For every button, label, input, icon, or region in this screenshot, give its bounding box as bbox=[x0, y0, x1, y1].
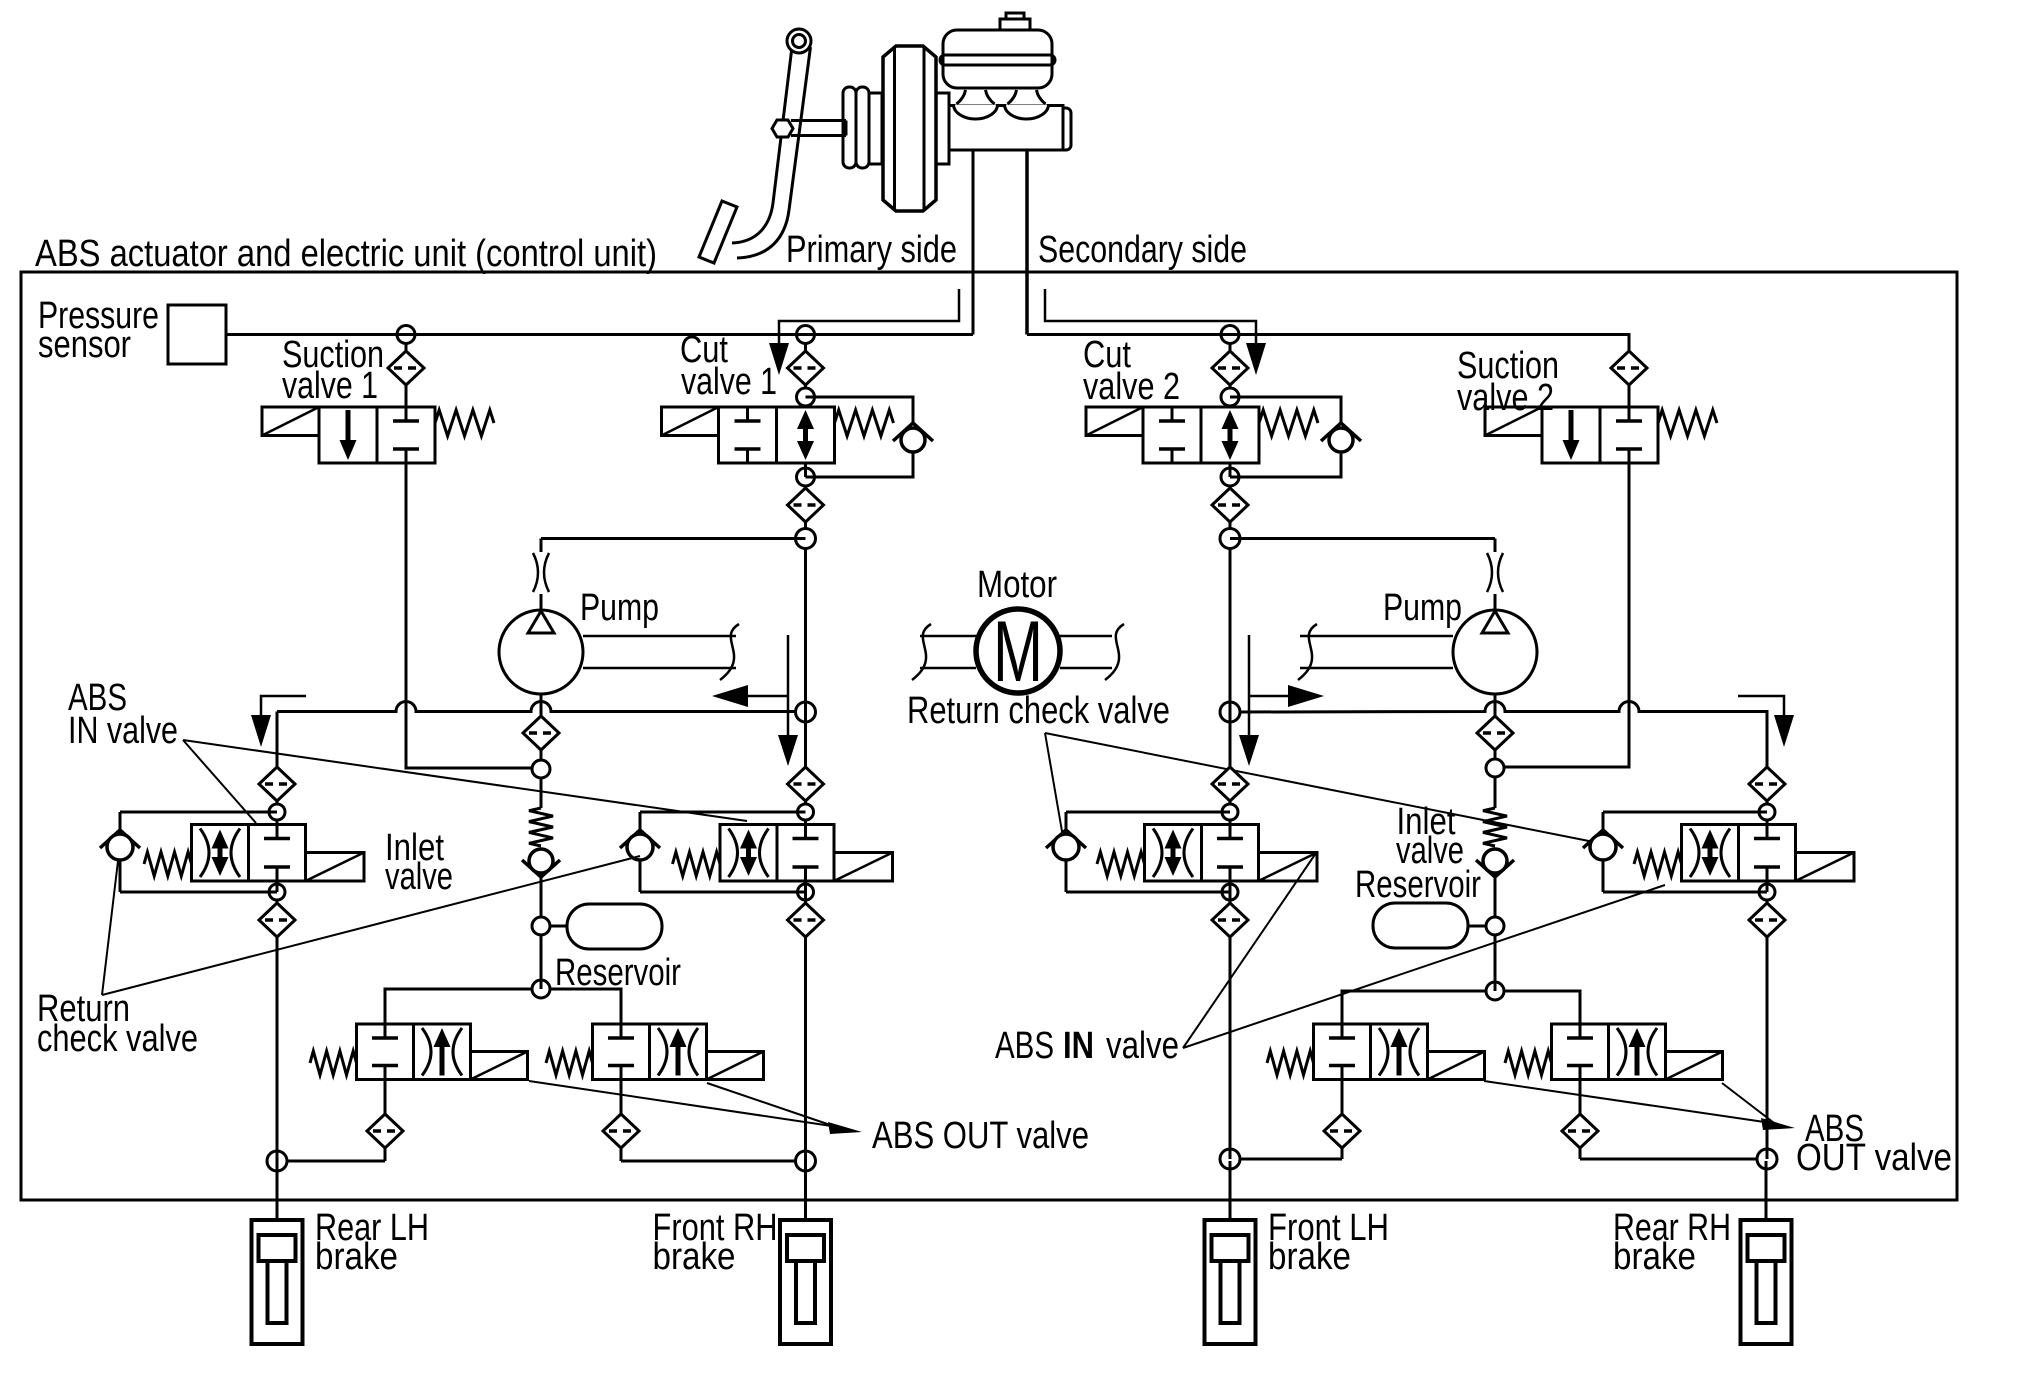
node: primary bus at cut valve 1 output bbox=[796, 702, 816, 722]
ABS IN valve (Front RH) top filter bbox=[788, 712, 824, 805]
label: Rear RH brake bbox=[1613, 1207, 1731, 1278]
return spring of cut bbox=[1259, 410, 1318, 436]
node: primary reservoir junction bbox=[532, 917, 550, 935]
solenoid coil of Rear RH inlet valve bbox=[1796, 853, 1855, 882]
master cylinder body bbox=[949, 106, 1071, 151]
return check valve bypass of Front LH inlet valve bbox=[1046, 812, 1230, 892]
pump 1 drive shaft bbox=[583, 624, 739, 680]
Front LH OUT valve bottom filter bbox=[1324, 1080, 1360, 1160]
node above Rear LH inlet valve bbox=[269, 804, 285, 820]
leader lines from ABS OUT valve label (left) bbox=[529, 1081, 862, 1134]
label: Return check valve (left) bbox=[37, 988, 198, 1060]
booster spacer bbox=[869, 93, 882, 164]
spring of Front LH ABS OUT valve bbox=[1267, 1051, 1314, 1075]
wire: pump 1 outlet to cut valve 1 output bbox=[541, 537, 806, 540]
wire: branch to Rear LH OUT valve bbox=[385, 989, 532, 1024]
ABS IN valve (Rear RH) body bbox=[1682, 825, 1796, 882]
label: ABS OUT valve (right) bbox=[1796, 1108, 1952, 1179]
wire: brake line to Front LH brake bbox=[1229, 1161, 1232, 1220]
node: cut valve 1 output junction bbox=[796, 529, 816, 549]
Rear LH inlet valve bottom filter bbox=[259, 900, 295, 937]
wire: branch to Front RH OUT valve bbox=[550, 989, 621, 1024]
node: suction valve 1 tap on primary line bbox=[397, 326, 415, 344]
node below Rear RH inlet valve bbox=[1759, 881, 1775, 900]
svg-text:check valve: check valve bbox=[37, 1018, 198, 1060]
label: ABS IN valve (right) bbox=[995, 1025, 1179, 1067]
solenoid coil of Front LH ABS OUT valve bbox=[1428, 1052, 1485, 1080]
wire: brake line to Rear LH brake bbox=[276, 1161, 279, 1220]
secondary outlet pipe bbox=[1025, 150, 1029, 335]
label: Inlet valve (left) bbox=[385, 827, 453, 898]
valve body of suction bbox=[319, 407, 435, 463]
node: Front RH brake line junction bbox=[796, 1151, 816, 1171]
pump 1 bbox=[499, 610, 583, 694]
svg-text:ABS: ABS bbox=[995, 1025, 1054, 1067]
node: cut valve 2 output junction bbox=[1220, 529, 1240, 549]
leader lines from ABS IN valve label (left) bbox=[183, 740, 747, 823]
svg-text:IN valve: IN valve bbox=[68, 710, 178, 752]
pump 2 inlet filter bbox=[1477, 694, 1513, 759]
node above Rear RH inlet valve bbox=[1759, 804, 1775, 820]
svg-text:Secondary side: Secondary side bbox=[1038, 229, 1247, 271]
ABS IN valve (Front LH) body bbox=[1145, 825, 1259, 882]
check valve bypass of cut valve 2 bbox=[1230, 397, 1361, 477]
valve body of cut bbox=[1143, 407, 1259, 463]
motor left shaft bbox=[912, 624, 976, 680]
label: Primary side bbox=[786, 229, 957, 271]
wire: pump 2 outlet to cut valve 2 output bbox=[1230, 537, 1495, 540]
flow arrow into cut valve 2 bbox=[1045, 289, 1266, 375]
return spring of cut bbox=[835, 410, 894, 436]
valve body of cut bbox=[719, 407, 835, 463]
master cylinder inlet block bbox=[936, 93, 949, 164]
Rear RH brake actuator bbox=[1741, 1220, 1792, 1344]
primary outlet pipe bbox=[972, 150, 975, 335]
label: ABS IN valve (left) bbox=[68, 677, 178, 752]
label: Reservoir (right) bbox=[1355, 864, 1481, 906]
ABS actuator control unit enclosure box bbox=[21, 272, 1957, 1200]
label: Inlet valve (right) bbox=[1396, 801, 1464, 872]
wire: branch to Front LH OUT valve bbox=[1342, 991, 1486, 1024]
node below cut valve 2 bbox=[1221, 463, 1239, 486]
label: Cut valve 1 bbox=[680, 329, 777, 403]
wire: Front RH OUT valve to brake line bbox=[621, 1160, 795, 1163]
svg-text:valve 2: valve 2 bbox=[1083, 366, 1180, 408]
node: cut valve 2 tap on secondary line bbox=[1221, 326, 1239, 344]
label: Return check valve (center) bbox=[907, 690, 1170, 732]
svg-text:brake: brake bbox=[1613, 1236, 1696, 1278]
label: Cut valve 2 bbox=[1083, 334, 1180, 408]
ABS IN valve (Front LH) top filter bbox=[1212, 712, 1248, 805]
svg-text:Reservoir: Reservoir bbox=[1355, 864, 1481, 906]
node: secondary reservoir junction bbox=[1486, 917, 1504, 935]
label: Front RH brake bbox=[653, 1207, 778, 1278]
master cylinder reservoir ports bbox=[954, 90, 1049, 119]
svg-text:M: M bbox=[993, 604, 1043, 700]
return spring of suction bbox=[1658, 410, 1717, 436]
svg-text:valve 2: valve 2 bbox=[1457, 377, 1554, 419]
leader lines from ABS OUT valve label (right) bbox=[1484, 1081, 1795, 1130]
wire: primary reservoir to ABS OUT valves bbox=[540, 935, 543, 989]
flow arrow into cut valve 1 bbox=[769, 289, 959, 375]
solenoid coil of suction bbox=[1485, 407, 1542, 436]
label: Secondary side bbox=[1038, 229, 1247, 271]
label: ABS actuator and electric unit (control unit) bbox=[35, 233, 657, 275]
flow arrow on primary bus (leftward) bbox=[712, 635, 798, 766]
ABS IN valve (Front RH) bottom filter bbox=[788, 881, 824, 937]
wire: Front LH brake line down bbox=[1229, 937, 1232, 1159]
cut valve 1 outlet filter bbox=[788, 486, 824, 529]
svg-text:Motor: Motor bbox=[977, 564, 1057, 606]
Front LH brake actuator bbox=[1205, 1220, 1256, 1344]
node: secondary bus at cut valve 2 output bbox=[1220, 702, 1240, 722]
spring of Rear LH ABS OUT valve bbox=[310, 1051, 357, 1075]
pressure sensor bbox=[168, 305, 226, 364]
wire node to Front LH inlet valve bbox=[1229, 820, 1232, 825]
label: Pressure sensor bbox=[38, 295, 159, 366]
cut valve 1 inlet filter bbox=[788, 343, 824, 388]
solenoid coil of cut bbox=[662, 407, 719, 436]
valve body of suction bbox=[1542, 407, 1658, 463]
motor right shaft bbox=[1060, 624, 1124, 680]
spring of Front RH ABS OUT valve bbox=[546, 1051, 593, 1075]
node below Front LH inlet valve bbox=[1222, 884, 1238, 900]
svg-text:Primary side: Primary side bbox=[786, 229, 957, 271]
pump 1 inlet filter bbox=[523, 694, 559, 760]
Rear LH brake actuator bbox=[252, 1220, 303, 1344]
return check valve bypass of Front RH inlet valve bbox=[620, 812, 806, 892]
Rear RH inlet valve bottom filter bbox=[1749, 900, 1785, 937]
label: ABS OUT valve (left) bbox=[872, 1115, 1089, 1157]
solenoid coil of cut bbox=[1086, 407, 1143, 436]
solenoid coil of Front LH inlet valve bbox=[1259, 853, 1318, 882]
label: Motor bbox=[977, 564, 1057, 606]
wire: Rear RH brake line down bbox=[1766, 937, 1769, 1159]
label: Front LH brake bbox=[1268, 1207, 1389, 1278]
label: Rear LH brake bbox=[315, 1207, 429, 1278]
solenoid coil of Front RH ABS OUT valve bbox=[707, 1052, 764, 1080]
svg-text:OUT valve: OUT valve bbox=[1796, 1137, 1952, 1179]
node below Rear LH inlet valve bbox=[269, 881, 285, 900]
node above Front RH inlet valve bbox=[798, 804, 814, 820]
svg-text:sensor: sensor bbox=[38, 324, 131, 366]
solenoid coil of Front RH inlet valve bbox=[834, 853, 893, 882]
wire: suction valve 1 down to pump 1 inlet bbox=[406, 463, 532, 768]
brake booster drum bbox=[883, 46, 936, 211]
check valve bypass of cut valve 1 bbox=[806, 397, 934, 477]
svg-text:Pump: Pump bbox=[1383, 587, 1462, 629]
Front RH OUT valve bottom filter bbox=[603, 1080, 639, 1162]
Rear RH OUT valve bottom filter bbox=[1562, 1080, 1598, 1160]
ABS IN valve (Rear LH) body bbox=[192, 825, 306, 882]
node: secondary ABS OUT branch bbox=[1486, 982, 1504, 1000]
booster seals bbox=[843, 87, 869, 168]
wire: primary line from master cylinder to pressure sensor bbox=[226, 333, 973, 336]
ABS OUT valve (Rear RH) body bbox=[1552, 1024, 1666, 1080]
label: Suction valve 1 bbox=[282, 334, 384, 407]
solenoid coil of suction bbox=[262, 407, 319, 436]
wire: suction valve 2 down to pump 2 inlet bbox=[1504, 463, 1629, 767]
reservoir (primary) bbox=[550, 904, 662, 949]
Rear RH top filter bbox=[1749, 767, 1785, 804]
node: Front LH brake line junction bbox=[1220, 1149, 1240, 1169]
label: Pump (left) bbox=[580, 587, 659, 629]
svg-text:ABS OUT valve: ABS OUT valve bbox=[872, 1115, 1089, 1157]
svg-text:IN: IN bbox=[1063, 1025, 1094, 1067]
brake pedal arm bbox=[732, 47, 811, 258]
wire: secondary brake bus bbox=[1240, 702, 1767, 768]
return check valve bypass of Rear RH inlet valve bbox=[1583, 812, 1767, 892]
ABS IN valve (Front RH) body bbox=[720, 825, 834, 882]
wire: primary brake bus bbox=[277, 702, 796, 712]
spring of Rear RH inlet valve bbox=[1634, 852, 1682, 876]
wire: Front RH brake line down bbox=[804, 937, 807, 1161]
svg-text:brake: brake bbox=[1268, 1236, 1351, 1278]
pump 2 drive shaft bbox=[1298, 624, 1453, 680]
wire: Front LH OUT valve to brake line bbox=[1240, 1158, 1342, 1161]
svg-text:ABS actuator and electric unit: ABS actuator and electric unit (control … bbox=[35, 233, 657, 275]
pump 1 outlet coupling bbox=[533, 539, 549, 611]
node: pump 1 suction junction bbox=[532, 760, 550, 778]
spring of Rear LH inlet valve bbox=[144, 852, 192, 876]
return check valve bypass of Rear LH inlet valve bbox=[100, 812, 277, 892]
wire: secondary reservoir to ABS OUT valves bbox=[1494, 935, 1497, 991]
wire: cut valve 1 output down to brake bus bbox=[804, 549, 807, 713]
brake fluid reservoir tank bbox=[940, 30, 1055, 88]
pump 2 outlet coupling bbox=[1487, 539, 1503, 611]
svg-text:valve 1: valve 1 bbox=[282, 365, 378, 407]
wire node to cut valve 1 bbox=[804, 406, 807, 407]
wire: Rear RH OUT valve to brake line bbox=[1580, 1158, 1757, 1161]
ABS OUT valve (Front RH) body bbox=[593, 1024, 707, 1080]
label: Reservoir (left) bbox=[555, 952, 681, 994]
flow arrow into Rear LH inlet valve bbox=[251, 696, 306, 747]
node: Rear LH brake line junction bbox=[267, 1151, 287, 1171]
leader lines from Return check valve label (left) bbox=[102, 856, 640, 995]
svg-text:valve: valve bbox=[1106, 1025, 1179, 1067]
suction valve 1 inlet filter bbox=[388, 343, 424, 407]
node: primary ABS OUT branch bbox=[532, 980, 550, 998]
wire: brake line to Front RH brake bbox=[804, 1161, 807, 1220]
return check valve of secondary circuit bbox=[1476, 777, 1514, 917]
return spring of suction bbox=[435, 410, 494, 436]
wire node to Rear RH inlet valve body bbox=[1766, 820, 1769, 825]
brake pedal pad bbox=[699, 201, 737, 263]
node above cut valve 1 bbox=[797, 388, 815, 406]
wire: Rear LH OUT valve to brake line bbox=[287, 1160, 385, 1163]
brake pedal pivot bbox=[787, 29, 811, 53]
solenoid coil of Rear RH ABS OUT valve bbox=[1666, 1052, 1723, 1080]
flow arrow into Rear RH inlet valve bbox=[1738, 696, 1794, 747]
Rear LH OUT valve bottom filter bbox=[367, 1080, 403, 1162]
node below cut valve 1 bbox=[797, 463, 815, 486]
ABS OUT valve (Front LH) body bbox=[1314, 1024, 1428, 1080]
node: Rear RH brake line junction bbox=[1757, 1149, 1777, 1169]
suction valve 2 inlet filter bbox=[1611, 351, 1647, 407]
wire: secondary line from master cylinder to suction valve 2 bbox=[1027, 335, 1629, 352]
ABS OUT valve (Rear LH) body bbox=[357, 1024, 471, 1080]
cut valve 2 inlet filter bbox=[1212, 343, 1248, 388]
label: Pump (right) bbox=[1383, 587, 1462, 629]
label: Suction valve 2 bbox=[1457, 345, 1559, 419]
svg-text:Return check valve: Return check valve bbox=[907, 690, 1170, 732]
wire node to Rear LH inlet valve body bbox=[276, 820, 279, 825]
wire: brake line to Rear RH brake bbox=[1765, 1161, 1768, 1220]
node above cut valve 2 bbox=[1221, 388, 1239, 406]
node: pump 2 suction junction bbox=[1486, 759, 1504, 777]
svg-text:valve: valve bbox=[385, 856, 453, 898]
leader lines from Return check valve label bbox=[1045, 733, 1599, 843]
svg-text:Pump: Pump bbox=[580, 587, 659, 629]
svg-text:brake: brake bbox=[653, 1236, 736, 1278]
node below Front RH inlet valve bbox=[798, 884, 814, 900]
Front RH brake actuator bbox=[780, 1220, 831, 1344]
spring of Front LH inlet valve bbox=[1097, 852, 1145, 876]
spring of Rear RH ABS OUT valve bbox=[1505, 1051, 1552, 1075]
svg-text:valve 1: valve 1 bbox=[681, 361, 777, 403]
ABS IN valve (Front LH) bottom filter bbox=[1212, 881, 1248, 937]
wire node to Front RH inlet valve bbox=[804, 820, 807, 825]
motor bbox=[976, 604, 1060, 700]
node above Front LH inlet valve bbox=[1222, 804, 1238, 820]
wire: bus corner down to Rear LH inlet valve bbox=[259, 712, 295, 805]
reservoir cap bbox=[1000, 13, 1030, 30]
svg-text:brake: brake bbox=[315, 1236, 398, 1278]
leader lines from ABS IN valve label (right) bbox=[1183, 853, 1665, 1048]
reservoir (secondary) bbox=[1373, 903, 1486, 948]
solenoid coil of Rear LH inlet valve bbox=[306, 853, 365, 882]
spring of Front RH inlet valve bbox=[673, 852, 721, 876]
cut valve 2 outlet filter bbox=[1212, 486, 1248, 529]
wire: cut valve 2 output down to brake bus bbox=[1229, 549, 1232, 713]
pedal push rod bbox=[772, 120, 846, 137]
wire: Rear LH brake line down bbox=[276, 937, 279, 1161]
node: cut valve 1 tap on primary line bbox=[797, 326, 815, 344]
return check valve of primary circuit bbox=[522, 778, 560, 917]
flow arrow on secondary bus (rightward) bbox=[1239, 635, 1324, 766]
solenoid coil of Rear LH ABS OUT valve bbox=[471, 1052, 528, 1080]
pump 2 bbox=[1453, 610, 1537, 694]
wire: branch to Rear RH OUT valve bbox=[1504, 991, 1580, 1024]
